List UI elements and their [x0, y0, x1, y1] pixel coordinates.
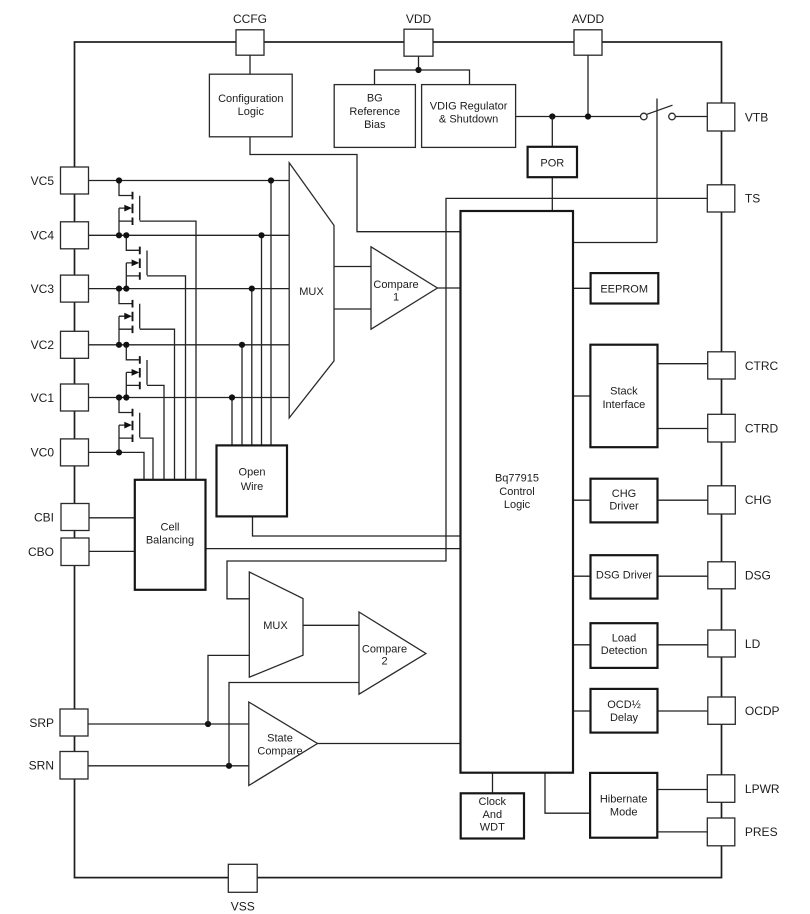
wire VC2 sense to Open Wire	[241, 345, 243, 446]
wire Open Wire output to Control Logic	[253, 516, 461, 536]
wire Control Logic to Stack Interface	[573, 395, 590, 397]
svg-text:VDIG Regulator: VDIG Regulator	[430, 100, 508, 112]
wire OCD Delay to OCDP pin	[658, 710, 708, 712]
svg-text:CBI: CBI	[34, 510, 54, 524]
svg-text:POR: POR	[540, 158, 564, 170]
svg-text:Reference: Reference	[349, 106, 400, 118]
wire State Compare output to Control Logic	[318, 743, 461, 745]
chip boundary frame	[75, 42, 722, 878]
block BG Reference Bias	[334, 85, 415, 148]
svg-text:VC2: VC2	[31, 338, 55, 352]
pin VC0	[31, 439, 89, 466]
svg-text:VC0: VC0	[31, 446, 55, 460]
wire Control Logic to OCD Delay	[573, 710, 591, 712]
svg-text:DSG Driver: DSG Driver	[596, 569, 653, 581]
node rail junction AVDD	[585, 113, 591, 119]
pin TS	[707, 185, 760, 212]
svg-text:Control: Control	[499, 486, 534, 498]
node SRN tap	[226, 763, 232, 769]
svg-text:CHG: CHG	[612, 488, 636, 500]
pin VC1	[31, 384, 89, 411]
svg-text:Clock: Clock	[479, 796, 507, 808]
wire VDIG output rail to switch	[516, 116, 641, 118]
svg-text:EEPROM: EEPROM	[600, 283, 648, 295]
wire Control Logic to Clock And WDT	[492, 773, 494, 794]
pin CCFG	[233, 12, 267, 55]
wire CHG Driver to CHG pin	[658, 499, 708, 501]
svg-text:VC5: VC5	[31, 174, 55, 188]
block CHG Driver	[591, 479, 658, 523]
pin CTRC	[708, 352, 779, 379]
block Cell Balancing	[135, 480, 206, 590]
svg-text:Logic: Logic	[504, 499, 531, 511]
pin VC4	[31, 222, 89, 249]
svg-text:WDT: WDT	[480, 822, 505, 834]
comparator State Compare	[249, 702, 318, 786]
block Stack Interface	[590, 345, 657, 448]
wire Configuration Logic output to Control Logic	[250, 137, 461, 232]
wire Hibernate Mode to LPWR	[657, 789, 707, 791]
svg-text:PRES: PRES	[745, 825, 778, 839]
svg-text:SRP: SRP	[29, 716, 54, 730]
node VC1 sense tap	[229, 394, 235, 400]
svg-text:VSS: VSS	[231, 900, 255, 914]
pin VTB	[707, 103, 768, 131]
pin SRP	[29, 709, 88, 736]
wire VC0 to Cell Balancing	[89, 452, 145, 479]
pin VC2	[31, 331, 89, 358]
pin CHG	[708, 486, 772, 514]
pin DSG	[708, 562, 771, 589]
wire VC3 to MUX	[89, 288, 290, 290]
wire SRN tap up to Compare 2	[229, 683, 359, 766]
wire Control Logic to Hibernate Mode	[545, 773, 590, 814]
block POR	[528, 147, 577, 177]
svg-text:AVDD: AVDD	[572, 12, 605, 26]
transistor Q5 cell-balance FET VC1-VC0	[116, 394, 153, 479]
svg-text:CCFG: CCFG	[233, 12, 267, 26]
svg-text:CTRC: CTRC	[745, 359, 779, 373]
transistor Q2 cell-balance FET VC4-VC3	[123, 232, 185, 480]
svg-text:Detection: Detection	[601, 645, 647, 657]
svg-text:Compare: Compare	[362, 644, 407, 656]
wire MUX output upper to Compare 1	[334, 266, 371, 268]
wire POR input	[551, 117, 553, 147]
pin LPWR	[707, 775, 780, 803]
node VC4 sense tap	[258, 232, 264, 238]
wire AVDD stub down to rail	[587, 55, 589, 116]
svg-text:1: 1	[393, 291, 399, 303]
svg-text:MUX: MUX	[299, 286, 324, 298]
block OCD half Delay	[591, 689, 658, 733]
pin OCDP	[708, 697, 780, 724]
svg-text:VC1: VC1	[31, 391, 55, 405]
mux U2 MUX upper	[289, 163, 334, 418]
svg-text:CBO: CBO	[28, 545, 54, 559]
wire switch to VTB pin	[675, 116, 707, 118]
wire Cell Balancing output to Control Logic	[206, 548, 461, 550]
block Clock And WDT	[461, 793, 524, 838]
wire Compare 1 output to Control Logic	[437, 287, 460, 289]
svg-text:And: And	[483, 809, 503, 821]
pin SRN	[29, 752, 88, 780]
wire SRP to State Compare	[89, 723, 249, 725]
wire VDD tee feeding BG and VDIG	[375, 70, 470, 85]
wire Stack Interface to CTRD	[658, 428, 708, 430]
svg-text:Mode: Mode	[610, 807, 638, 819]
svg-text:CTRD: CTRD	[745, 422, 779, 436]
node VDD junction	[415, 67, 421, 73]
svg-text:Compare: Compare	[373, 279, 418, 291]
pin CBO	[28, 538, 89, 566]
svg-text:Logic: Logic	[238, 106, 265, 118]
svg-text:Bias: Bias	[364, 119, 386, 131]
svg-text:Balancing: Balancing	[146, 535, 194, 547]
wire DSG Driver to DSG pin	[658, 575, 708, 577]
node VC5 sense tap	[268, 177, 274, 183]
transistor Q3 cell-balance FET VC3-VC2	[116, 286, 175, 480]
node rail junction to POR	[549, 113, 555, 119]
wire VC4 sense to Open Wire	[261, 235, 263, 445]
wire MUX output lower to Compare 1	[334, 308, 371, 310]
node VC2 sense tap	[239, 342, 245, 348]
wire VDD stub down to junction	[418, 56, 420, 70]
svg-text:DSG: DSG	[745, 569, 771, 583]
wire VC3 sense to Open Wire	[251, 289, 253, 446]
pin LD	[708, 630, 761, 657]
pin PRES	[707, 818, 777, 846]
svg-text:Compare: Compare	[257, 745, 302, 757]
wire SRN to State Compare	[89, 765, 249, 767]
comparator Compare 1	[371, 247, 437, 329]
svg-text:OCD½: OCD½	[607, 699, 641, 711]
wire TS line to MUX 2	[227, 198, 707, 598]
svg-text:CHG: CHG	[745, 493, 772, 507]
wire CBI to Cell Balancing	[89, 517, 135, 519]
svg-text:Configuration: Configuration	[218, 93, 283, 105]
node SRP tap	[205, 721, 211, 727]
svg-text:LPWR: LPWR	[745, 782, 780, 796]
svg-text:Delay: Delay	[610, 712, 639, 724]
wire POR output to Control Logic	[551, 177, 553, 211]
svg-text:State: State	[267, 733, 293, 745]
wire VC5 to MUX	[89, 180, 290, 182]
pin VC3	[31, 275, 89, 302]
svg-text:MUX: MUX	[263, 620, 288, 632]
svg-text:Cell: Cell	[161, 522, 180, 534]
svg-text:& Shutdown: & Shutdown	[439, 113, 498, 125]
wire Load Detection to LD pin	[658, 644, 708, 646]
wire Control Logic to EEPROM	[573, 287, 591, 289]
switch S1	[641, 99, 676, 243]
block EEPROM	[591, 273, 659, 303]
svg-text:Interface: Interface	[602, 399, 645, 411]
pin VDD	[404, 12, 433, 56]
svg-text:VTB: VTB	[745, 110, 768, 124]
transistor Q4 cell-balance FET VC2-VC1	[123, 342, 164, 480]
svg-text:TS: TS	[745, 192, 760, 206]
block DSG Driver	[591, 555, 658, 598]
wire Stack Interface to CTRC	[658, 363, 708, 365]
svg-text:Bq77915: Bq77915	[495, 473, 539, 485]
block Configuration Logic	[209, 74, 292, 137]
svg-text:VC4: VC4	[31, 229, 55, 243]
svg-text:SRN: SRN	[29, 759, 54, 773]
block VDIG Regulator and Shutdown	[422, 85, 516, 148]
pin VC5	[31, 167, 89, 194]
pin CTRD	[708, 414, 779, 442]
wire switch control from Control Logic	[573, 242, 657, 244]
comparator Compare 2	[359, 612, 426, 694]
transistor Q1 cell-balance FET VC5-VC4	[116, 177, 196, 479]
node VC3 sense tap	[249, 286, 255, 292]
wire VC1 to MUX	[89, 397, 290, 399]
svg-text:Wire: Wire	[241, 481, 264, 493]
svg-text:Load: Load	[612, 633, 636, 645]
wire Hibernate Mode to PRES	[657, 831, 707, 833]
wire Control Logic to Load Detection	[573, 644, 591, 646]
svg-text:BG: BG	[367, 93, 383, 105]
wire MUX 2 output to Compare 2	[303, 624, 359, 626]
block Open Wire	[217, 445, 288, 516]
svg-text:VDD: VDD	[406, 12, 432, 26]
svg-text:LD: LD	[745, 637, 761, 651]
wire Control Logic to DSG Driver	[573, 575, 591, 577]
pin VSS	[228, 864, 257, 913]
wire VC1 sense to Open Wire	[231, 398, 233, 446]
svg-text:Hibernate: Hibernate	[600, 793, 648, 805]
mux U3 MUX lower	[249, 572, 303, 677]
wire CCFG stub to Configuration Logic	[249, 55, 251, 74]
wire VC4 to MUX	[89, 234, 290, 236]
svg-text:OCDP: OCDP	[745, 704, 780, 718]
wire VC2 to MUX	[89, 344, 290, 346]
wire SRP tap up to MUX 2	[208, 655, 249, 724]
wire VC5 sense to Open Wire	[270, 181, 272, 446]
wire CBO to Cell Balancing	[89, 550, 135, 552]
block Bq77915 Control Logic	[461, 211, 574, 773]
svg-text:Open: Open	[239, 467, 266, 479]
svg-text:VC3: VC3	[31, 282, 55, 296]
pin AVDD	[572, 12, 605, 55]
block Load Detection	[591, 623, 658, 668]
svg-text:Stack: Stack	[610, 386, 638, 398]
wire Control Logic to CHG Driver	[573, 499, 591, 501]
pin CBI	[34, 504, 89, 531]
svg-text:2: 2	[381, 655, 387, 667]
block Hibernate Mode	[590, 773, 657, 838]
svg-text:Driver: Driver	[609, 501, 639, 513]
